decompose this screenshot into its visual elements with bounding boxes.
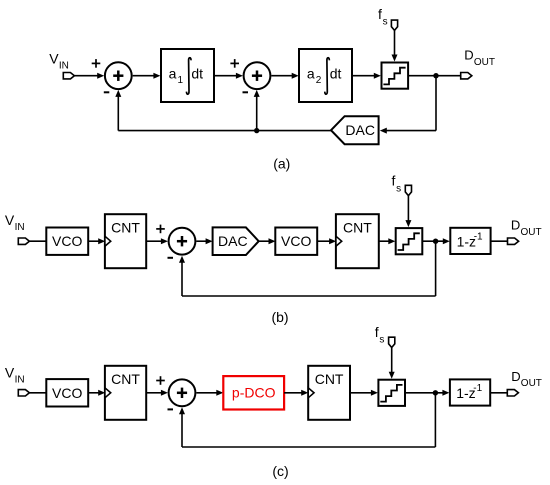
wire VCO2 to CNT2 (b) xyxy=(317,240,330,242)
label D_OUT (a) xyxy=(464,48,495,68)
svg-text:dt: dt xyxy=(191,66,203,82)
block p-DCO (red) xyxy=(223,376,284,409)
wire A1 to summer S2 xyxy=(215,75,237,77)
svg-text:D: D xyxy=(464,48,473,63)
svg-text:f: f xyxy=(392,173,396,189)
minus sign at S2 feedback input xyxy=(243,91,249,93)
wire Q2 to 1-z block (b) xyxy=(422,240,443,242)
wire 1-z to output port (c) xyxy=(491,392,508,394)
svg-text:CNT: CNT xyxy=(343,219,372,235)
svg-text:(c): (c) xyxy=(272,463,288,479)
clock pin fs (b) xyxy=(405,185,411,195)
summer (c) xyxy=(169,379,196,406)
input port V_IN (c) xyxy=(18,390,29,396)
feedback rail (b) xyxy=(182,295,436,297)
DAC block (b) xyxy=(213,227,259,255)
svg-text:DAC: DAC xyxy=(218,233,248,249)
label fs (a) xyxy=(378,6,388,28)
block CNT1 (c) xyxy=(105,366,146,420)
wire CNT2 to quantizer (b) xyxy=(379,240,389,242)
svg-text:OUT: OUT xyxy=(521,378,542,389)
input port V_IN (b) xyxy=(18,238,29,244)
node at D_OUT branch (b) xyxy=(433,239,438,244)
svg-text:(a): (a) xyxy=(273,156,290,172)
label D_OUT (c) xyxy=(511,369,542,389)
wire S2 to integrator A2 xyxy=(271,75,292,77)
svg-text:f: f xyxy=(375,324,379,340)
wire CNT1 to summer (b) xyxy=(146,240,161,242)
wire Q3 to 1-z block (c) xyxy=(405,392,443,394)
label D_OUT (b) xyxy=(511,218,542,238)
block 1-z^-1 (b) xyxy=(450,228,490,254)
input port V_IN (a) xyxy=(63,73,74,79)
minus sign at summer (b) xyxy=(168,257,174,259)
clock pin fs (a) xyxy=(391,20,397,30)
wire VCO to CNT1 (c) xyxy=(88,392,99,394)
plus sign at S1 input xyxy=(92,59,101,68)
svg-text:p-DCO: p-DCO xyxy=(232,385,276,401)
plus sign at summer (b) xyxy=(156,225,165,234)
DAC block (a) xyxy=(331,116,379,144)
svg-text:IN: IN xyxy=(59,61,69,72)
node at D_OUT branch (a) xyxy=(433,73,438,78)
output port D_OUT (a) xyxy=(461,73,472,79)
feedback rail (c) xyxy=(182,446,435,448)
svg-text:1: 1 xyxy=(178,75,184,86)
summer S1 xyxy=(105,62,132,89)
block CNT1 (b) xyxy=(105,214,146,268)
svg-text:V: V xyxy=(5,212,15,228)
svg-text:V: V xyxy=(5,364,15,380)
minus sign at S1 feedback input xyxy=(104,91,110,93)
svg-text:2: 2 xyxy=(316,75,322,86)
svg-text:-1: -1 xyxy=(473,383,482,394)
feedback branch up to summer (c) xyxy=(181,413,183,447)
block VCO1 (b) xyxy=(46,228,88,255)
summer S2 xyxy=(244,62,271,89)
minus sign at summer (c) xyxy=(168,408,174,410)
svg-text:CNT: CNT xyxy=(111,219,140,235)
label V_IN (a) xyxy=(49,50,69,71)
svg-text:IN: IN xyxy=(15,222,25,233)
clock pin fs (c) xyxy=(389,337,395,347)
wire CNT2 to quantizer (c) xyxy=(350,392,372,394)
block VCO (c) xyxy=(46,379,88,406)
wire summer to p-DCO (c) xyxy=(196,392,217,394)
label fs (b) xyxy=(392,173,402,195)
plus sign at summer (c) xyxy=(156,376,165,385)
svg-text:CNT: CNT xyxy=(315,371,344,387)
svg-text:VCO: VCO xyxy=(281,233,311,249)
svg-text:OUT: OUT xyxy=(521,227,542,238)
quantizer Q1 xyxy=(382,63,409,89)
junction node on rail (a) xyxy=(254,128,259,133)
summer (b) xyxy=(169,228,196,255)
wire fs to Q1 xyxy=(394,30,396,55)
svg-text:OUT: OUT xyxy=(474,57,495,68)
integrator block A1 a1∫dt xyxy=(161,49,214,102)
wire DAC to VCO2 (b) xyxy=(259,240,269,242)
feedback wire into DAC (a) xyxy=(386,130,436,132)
wire p-DCO to CNT2 (c) xyxy=(284,392,302,394)
svg-text:D: D xyxy=(511,218,520,233)
plus sign at S2 input xyxy=(230,59,239,68)
svg-text:CNT: CNT xyxy=(111,371,140,387)
output port D_OUT (c) xyxy=(507,390,518,396)
wire V_IN to VCO (c) xyxy=(29,392,46,394)
svg-text:s: s xyxy=(396,183,401,194)
wire A2 to quantizer Q1 xyxy=(353,75,374,77)
feedback wire down from node (a) xyxy=(435,76,437,131)
svg-text:(b): (b) xyxy=(271,309,288,325)
feedback branch up to summer (b) xyxy=(181,262,183,296)
wire S1 to integrator A1 xyxy=(133,75,154,77)
svg-text:V: V xyxy=(49,50,59,66)
svg-text:s: s xyxy=(379,335,384,346)
feedback wire down from node (b) xyxy=(435,241,437,296)
feedback branch up to S1 xyxy=(117,96,119,131)
svg-text:dt: dt xyxy=(330,66,342,82)
wire CNT1 to summer (c) xyxy=(146,392,161,394)
block 1-z^-1 (c) xyxy=(450,379,490,405)
feedback rail from DAC output (a) xyxy=(118,130,331,132)
quantizer Q3 (c) xyxy=(378,380,405,406)
svg-text:a: a xyxy=(169,66,177,82)
svg-text:VCO: VCO xyxy=(52,233,82,249)
svg-text:DAC: DAC xyxy=(345,122,375,138)
label V_IN (b) xyxy=(5,212,25,233)
svg-text:IN: IN xyxy=(15,375,25,386)
label fs (c) xyxy=(375,324,385,346)
wire V_IN to summer S1 xyxy=(74,75,98,77)
wire 1-z to output port (b) xyxy=(491,240,507,242)
svg-text:D: D xyxy=(511,369,520,384)
label V_IN (c) xyxy=(5,364,25,385)
output port D_OUT (b) xyxy=(508,238,519,244)
node at D_OUT branch (c) xyxy=(433,390,438,395)
svg-text:a: a xyxy=(307,66,315,82)
wire V_IN to VCO (b) xyxy=(29,240,46,242)
svg-text:VCO: VCO xyxy=(52,385,82,401)
svg-text:s: s xyxy=(383,17,388,28)
integrator block A2 a2∫dt xyxy=(299,49,352,102)
svg-text:-1: -1 xyxy=(474,231,483,242)
wire fs to Q3 xyxy=(391,348,393,374)
svg-text:f: f xyxy=(378,6,382,22)
feedback wire down from node (c) xyxy=(434,393,436,447)
wire VCO1 to CNT1 (b) xyxy=(88,240,99,242)
quantizer Q2 (b) xyxy=(396,228,423,254)
feedback branch up to S2 xyxy=(256,96,258,131)
block CNT2 (b) xyxy=(336,214,379,268)
wire fs to Q2 xyxy=(407,196,409,222)
wire summer to DAC (b) xyxy=(196,240,206,242)
wire Q1 to output port xyxy=(409,75,461,77)
block VCO2 (b) xyxy=(275,228,317,255)
block CNT2 (c) xyxy=(308,366,350,420)
